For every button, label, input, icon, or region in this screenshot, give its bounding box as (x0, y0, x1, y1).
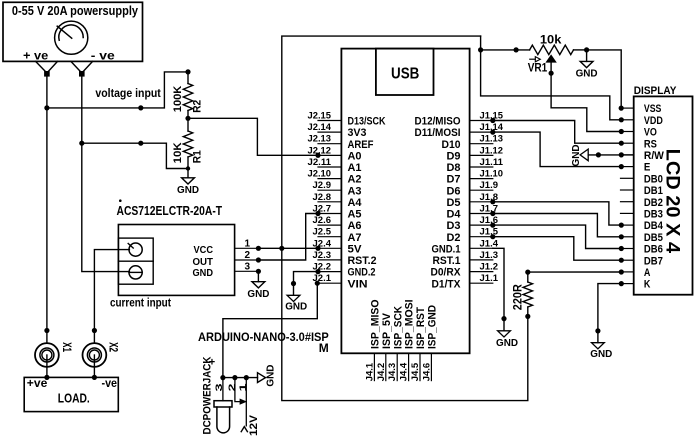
svg-text:D8: D8 (447, 162, 461, 174)
pin 1 VCC of ACS712 (235, 238, 261, 251)
pin J1.6 D3 (447, 215, 499, 232)
IC U1 ACS712ELCTR-20A-T current sensor box (117, 199, 235, 295)
svg-text:DB4: DB4 (644, 220, 664, 232)
svg-text:D4: D4 (447, 209, 462, 221)
pin LCD RS (621, 138, 657, 150)
svg-text:RST.1: RST.1 (433, 255, 461, 267)
power supply PS1 box 0-55V 20A (3, 2, 143, 62)
resistor R3 220R backlight (513, 270, 533, 320)
svg-text:J2.15: J2.15 (308, 111, 332, 122)
pin J1.5 D2 (447, 227, 499, 244)
svg-text:J4.4: J4.4 (399, 362, 410, 381)
svg-text:+ve: +ve (27, 376, 48, 390)
svg-text:J2.4: J2.4 (313, 238, 332, 249)
svg-text:VO: VO (644, 127, 657, 139)
label ARDUINO-NANO-3.0#ISP M (198, 330, 329, 355)
svg-text:D3: D3 (447, 220, 461, 232)
svg-text:ARDUINO-NANO-3.0#ISP: ARDUINO-NANO-3.0#ISP (198, 330, 329, 344)
pin J1.3 RST.1 (433, 250, 499, 267)
svg-text:J1.13: J1.13 (480, 134, 504, 145)
svg-text:A0: A0 (348, 151, 362, 163)
pin J2.5 A7 (313, 227, 362, 244)
svg-text:J1.12: J1.12 (480, 145, 504, 156)
svg-text:A4: A4 (348, 197, 363, 209)
pin J4.6 ISP_GND (421, 305, 438, 381)
svg-text:USB: USB (391, 65, 419, 82)
svg-text:ISP_GND: ISP_GND (427, 305, 439, 349)
load box (24, 375, 118, 412)
pin J2.10 A2 (308, 169, 362, 186)
arduino nano module U2 box (341, 49, 469, 354)
svg-text:D5: D5 (447, 197, 461, 209)
connector J5 DCPOWERJACK (202, 356, 249, 434)
svg-text:J1.3: J1.3 (480, 250, 499, 261)
pin J2.15 D13/SCK (308, 111, 386, 128)
label current input (110, 296, 171, 310)
svg-text:1: 1 (238, 382, 249, 391)
wire D4 J1.7 to LCD DB5 (490, 211, 624, 240)
svg-text:J2.14: J2.14 (308, 122, 332, 133)
pin J2.11 A1 (308, 157, 362, 174)
pin J1.14 D11/MOSI (415, 122, 504, 139)
pin J4.3 ISP_SCK (387, 306, 404, 381)
svg-text:RS: RS (644, 138, 657, 150)
svg-text:GND: GND (264, 364, 276, 386)
terminal X2 banana jack (83, 342, 119, 377)
pin J1.4 GND.1 (432, 238, 499, 255)
svg-text:RST.2: RST.2 (348, 255, 377, 267)
svg-text:-ve: -ve (102, 376, 118, 390)
pin J1.7 D4 (447, 204, 499, 221)
wire D11 J1.14 to LCD E (490, 130, 624, 170)
svg-text:VR1: VR1 (528, 63, 548, 75)
svg-text:DISPLAY: DISPLAY (634, 85, 677, 97)
svg-text:VDD: VDD (644, 115, 663, 127)
svg-text:100K: 100K (172, 86, 184, 113)
ground at VR1 right (576, 50, 598, 80)
pin J2.12 A0 (308, 145, 362, 162)
pin J1.9 D6 (447, 180, 499, 197)
pin J4.1 ISP_MISO (364, 299, 381, 381)
svg-text:A: A (644, 267, 651, 279)
ground at J2.2 GND.2 (285, 295, 307, 312)
panel meter symbol (55, 21, 88, 54)
svg-text:D10: D10 (442, 139, 461, 151)
wire VCC to 5V pin J2.4 (258, 246, 320, 251)
svg-text:VSS: VSS (644, 103, 662, 115)
svg-text:GND: GND (590, 348, 612, 360)
svg-text:J4.1: J4.1 (364, 362, 375, 381)
svg-text:GND.2: GND.2 (348, 267, 376, 279)
svg-text:A1: A1 (348, 162, 362, 174)
svg-text:A5: A5 (348, 209, 362, 221)
wire VIN J2.1 to DC power jack (223, 281, 320, 378)
svg-text:K: K (644, 279, 651, 291)
svg-text:DB6: DB6 (644, 244, 663, 256)
svg-text:A3: A3 (348, 185, 362, 197)
svg-text:ISP_RST: ISP_RST (415, 307, 427, 349)
svg-text:+ ve: + ve (23, 48, 49, 62)
svg-text:DB5: DB5 (644, 232, 663, 244)
ground at ACS712 pin 3 (247, 271, 269, 300)
svg-text:voltage input: voltage input (95, 86, 160, 100)
svg-text:A6: A6 (348, 220, 362, 232)
svg-text:ISP_MISO: ISP_MISO (370, 299, 382, 349)
pin J1.10 D7 (447, 169, 504, 186)
svg-text:D0/RX: D0/RX (431, 267, 462, 279)
junction jack pins bus (220, 375, 257, 380)
pin LCD DB7 (621, 255, 663, 267)
svg-text:J1.10: J1.10 (480, 169, 504, 180)
svg-text:D2: D2 (447, 232, 461, 244)
svg-text:DB1: DB1 (644, 185, 663, 197)
pin LCD DB6 (621, 244, 663, 256)
svg-text:GND: GND (193, 267, 214, 279)
pin J4.2 ISP_5V (376, 312, 393, 381)
wire current input top terminal to X2 (92, 250, 130, 344)
svg-text:X2: X2 (107, 342, 119, 352)
pin J2.8 A4 (313, 192, 363, 209)
terminal X1 banana jack (35, 342, 72, 377)
pin J2.1 VIN (313, 273, 368, 290)
svg-text:D1/TX: D1/TX (432, 278, 462, 290)
terminal -ve of power supply (71, 61, 93, 76)
LCD display module box (634, 85, 693, 295)
node voltage input label (95, 86, 160, 100)
wire D2 J1.5 to LCD DB7 (490, 234, 624, 263)
svg-text:R2: R2 (192, 100, 204, 113)
wire VR1 right to LCD VSS (587, 50, 624, 111)
svg-text:1: 1 (245, 238, 251, 249)
pin LCD K (621, 279, 651, 291)
svg-text:3: 3 (214, 384, 225, 392)
pin J1.13 D10 (442, 134, 504, 151)
svg-text:GND.1: GND.1 (432, 243, 461, 255)
wire 5V net from J2.4 across top and bottom to 220R (282, 36, 528, 401)
svg-text:ISP_5V: ISP_5V (381, 312, 393, 349)
svg-text:DB2: DB2 (644, 197, 663, 209)
svg-text:GND: GND (570, 144, 582, 166)
svg-text:M: M (319, 341, 329, 355)
wire +ve rail down to X1 (44, 74, 49, 343)
svg-text:ISP_MOSI: ISP_MOSI (404, 300, 416, 350)
pin J2.2 GND.2 (313, 262, 376, 279)
svg-text:ISP_SCK: ISP_SCK (392, 306, 404, 349)
pin LCD A (621, 267, 651, 279)
pin J2.3 RST.2 (313, 250, 377, 267)
pin J2.6 A6 (313, 215, 362, 232)
USB connector of arduino (376, 49, 434, 95)
svg-text:GND: GND (285, 301, 307, 313)
svg-text:J1.2: J1.2 (480, 262, 499, 273)
pin 3 GND of ACS712 (235, 261, 261, 274)
svg-text:+: + (209, 356, 215, 368)
svg-text:5V: 5V (348, 243, 363, 255)
wire voltage input net to R2 top (47, 69, 191, 110)
svg-text:J2.5: J2.5 (313, 227, 332, 238)
wire 5V branch to LCD VDD (481, 50, 624, 123)
svg-text:LCD 20 X 4: LCD 20 X 4 (661, 149, 682, 254)
pin 2 OUT of ACS712 (235, 250, 261, 263)
svg-text:AREF: AREF (348, 139, 374, 151)
wire -ve branch to R1 bottom (82, 141, 190, 171)
pin LCD DB2 (621, 197, 663, 209)
wire 220R to LCD A anode (528, 269, 624, 274)
svg-text:GND: GND (247, 288, 269, 300)
svg-text:10k: 10k (540, 35, 562, 47)
pin J1.8 D5 (447, 192, 499, 209)
wire GND.2 J2.2 to ground (291, 269, 321, 295)
junction R1-R2 divider node (185, 116, 190, 121)
svg-text:DB7: DB7 (644, 255, 663, 267)
svg-text:J1.9: J1.9 (480, 180, 499, 191)
wire VR1 wiper to LCD VO (549, 63, 624, 134)
wire 5V to VR1 left terminal (481, 47, 530, 52)
svg-text:GND: GND (177, 184, 199, 196)
pin J2.4 5V (313, 238, 363, 255)
svg-text:J2.9: J2.9 (313, 180, 332, 191)
svg-text:GND: GND (576, 68, 598, 80)
pin LCD DB5 (621, 232, 663, 244)
svg-text:J2.13: J2.13 (308, 134, 332, 145)
svg-text:J1.11: J1.11 (480, 157, 504, 168)
svg-text:VIN: VIN (348, 278, 368, 290)
wire D5 J1.8 to LCD DB4 (490, 199, 624, 228)
svg-text:VCC: VCC (194, 244, 214, 256)
pin LCD DB1 (621, 185, 663, 197)
svg-text:3V3: 3V3 (348, 127, 367, 139)
pin LCD E (621, 162, 651, 174)
wire divider node to A0 pin J2.12 (188, 118, 321, 158)
svg-text:J2.11: J2.11 (308, 157, 332, 168)
pin LCD DB4 (621, 220, 664, 232)
wire LCD K cathode to ground (595, 281, 624, 343)
pin J4.4 ISP_MOSI (399, 300, 416, 382)
pin J1.15 D12/MISO (415, 111, 504, 128)
svg-text:12V: 12V (248, 414, 260, 436)
svg-text:J2.7: J2.7 (313, 204, 332, 215)
wire D3 J1.6 to LCD DB6 (490, 223, 624, 252)
svg-text:GND: GND (496, 337, 518, 349)
svg-text:J4.2: J4.2 (376, 363, 387, 382)
svg-text:R1: R1 (192, 150, 204, 163)
svg-text:J2.10: J2.10 (308, 169, 332, 180)
wire GND.1 J1.4 to ground (493, 248, 507, 330)
svg-text:A7: A7 (348, 232, 362, 244)
svg-text:220R: 220R (513, 284, 525, 311)
potentiometer VR1 10k (528, 35, 587, 75)
svg-text:3: 3 (245, 261, 251, 272)
pin J2.9 A3 (313, 180, 362, 197)
svg-text:2: 2 (245, 250, 251, 261)
svg-text:DB0: DB0 (644, 173, 663, 185)
pin J2.13 AREF (308, 134, 374, 151)
wire D12 J1.15 to LCD RS (490, 118, 624, 146)
svg-text:- ve: - ve (91, 48, 115, 62)
svg-text:J2.6: J2.6 (313, 215, 332, 226)
svg-text:J1.1: J1.1 (480, 273, 499, 284)
ground at LCD R/W sideways (570, 144, 634, 166)
pin J1.2 D0/RX (431, 262, 499, 279)
svg-text:J4.6: J4.6 (421, 363, 432, 382)
svg-text:D9: D9 (447, 151, 461, 163)
svg-text:X1: X1 (60, 342, 72, 352)
svg-text:J4.5: J4.5 (410, 362, 421, 381)
svg-text:D13/SCK: D13/SCK (348, 116, 386, 128)
pin J1.1 D1/TX (432, 273, 499, 290)
svg-text:D11/MOSI: D11/MOSI (415, 127, 461, 139)
svg-text:LOAD.: LOAD. (58, 392, 90, 406)
ground below R1 (177, 169, 199, 197)
junction VR1 right terminal (584, 47, 589, 52)
pin J1.11 D8 (447, 157, 504, 174)
pin LCD VDD (621, 115, 663, 127)
pin LCD VSS (621, 103, 662, 115)
svg-text:J4.3: J4.3 (387, 363, 398, 382)
svg-text:current input: current input (110, 296, 171, 310)
pin J2.14 3V3 (308, 122, 367, 139)
terminal +ve of power supply (36, 61, 58, 76)
pin J2.7 A5 (313, 204, 362, 221)
svg-text:A2: A2 (348, 174, 362, 186)
resistor R2 100K (172, 72, 204, 118)
svg-text:0-55 V 20A powersupply: 0-55 V 20A powersupply (12, 3, 139, 18)
pin LCD DB0 (621, 173, 663, 185)
svg-text:J2.3: J2.3 (313, 250, 332, 261)
svg-text:J2.8: J2.8 (313, 192, 332, 203)
junction 5V at pot feed (478, 47, 483, 52)
svg-text:E: E (644, 162, 651, 174)
svg-text:R/W: R/W (644, 150, 665, 162)
connector current input screw terminals (118, 238, 153, 284)
svg-text:10K: 10K (172, 142, 184, 163)
svg-text:ACS712ELCTR-20A-T: ACS712ELCTR-20A-T (117, 203, 223, 218)
ground at J1.4 GND.1 (496, 331, 518, 349)
svg-text:D6: D6 (447, 185, 461, 197)
wire -ve rail down to current input connector (79, 74, 129, 272)
svg-text:J2.12: J2.12 (308, 145, 332, 156)
svg-text:D12/MISO: D12/MISO (415, 116, 461, 128)
resistor R1 10K (172, 118, 204, 168)
pin J4.5 ISP_RST (410, 307, 427, 382)
ground at DC jack sideways (258, 364, 277, 386)
svg-text:OUT: OUT (193, 256, 214, 268)
supply 12V arrow at jack pin 1 (241, 402, 260, 436)
pin J1.12 D9 (447, 145, 504, 162)
svg-text:DB3: DB3 (644, 209, 663, 221)
pin LCD R/W (621, 150, 665, 162)
svg-text:D7: D7 (447, 174, 461, 186)
pin LCD DB3 (621, 209, 663, 221)
ground at LCD K (590, 343, 612, 361)
pin LCD VO (621, 127, 658, 139)
svg-text:2: 2 (227, 384, 238, 392)
wire OUT to A5 pin J2.7 (258, 211, 320, 260)
